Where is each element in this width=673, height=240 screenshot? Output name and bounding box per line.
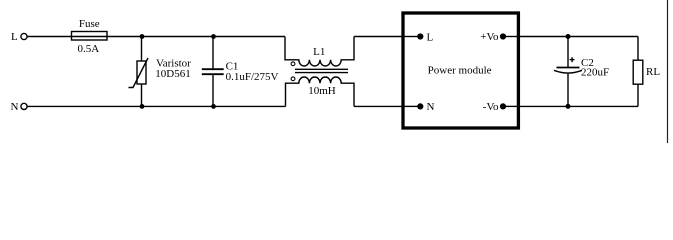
junction dot output bottom / C2 (566, 104, 571, 109)
phasing dot top (291, 62, 295, 66)
pin N of power module (404, 101, 435, 113)
svg-text:RL: RL (646, 66, 660, 78)
svg-text:N: N (11, 101, 19, 113)
wire L line from terminal to choke (27, 36, 285, 38)
resistor RL (633, 37, 660, 107)
junction dot N line / C1 (211, 104, 216, 109)
wire N line from terminal to choke (27, 105, 285, 107)
node L input terminal (11, 31, 27, 43)
border line at right edge (667, 0, 669, 143)
capacitor C1 0.1uF/275V (202, 37, 279, 107)
wire choke to module L (354, 36, 403, 38)
node N input terminal (11, 101, 28, 113)
svg-text:+Vo: +Vo (480, 31, 499, 43)
wire +Vo output line (518, 36, 638, 38)
junction dot L line / varistor (140, 34, 145, 39)
svg-text:0.5A: 0.5A (77, 43, 99, 55)
fuse F1 0.5A (72, 18, 108, 55)
svg-text:L: L (11, 31, 18, 43)
pin -Vo of power module (483, 101, 518, 113)
svg-text:-Vo: -Vo (483, 101, 499, 113)
pin L of power module (404, 32, 434, 44)
junction dot L line / C1 (211, 34, 216, 39)
svg-text:Fuse: Fuse (79, 18, 100, 30)
svg-text:10D561: 10D561 (155, 68, 190, 80)
varistor RV1 10D561 (129, 37, 192, 107)
svg-text:220uF: 220uF (581, 67, 609, 79)
phasing dot bottom (291, 77, 295, 81)
junction dot N line / varistor (140, 104, 145, 109)
capacitor C2 220uF electrolytic (554, 37, 609, 107)
svg-text:N: N (427, 101, 435, 113)
common-mode choke L1 10mH : top winding (285, 37, 354, 67)
wire -Vo output line (518, 105, 638, 107)
svg-text:L: L (427, 32, 434, 44)
wire choke to module N (354, 105, 403, 107)
svg-text:Power module: Power module (428, 65, 492, 77)
choke core lines (295, 69, 348, 72)
pin +Vo of power module (480, 31, 518, 43)
junction dot output top / C2 (566, 34, 571, 39)
svg-text:10mH: 10mH (308, 85, 336, 97)
svg-text:0.1uF/275V: 0.1uF/275V (226, 71, 279, 83)
power module U1 box (403, 13, 518, 128)
svg-text:L1: L1 (313, 46, 325, 58)
common-mode choke L1 : bottom winding (286, 77, 355, 107)
